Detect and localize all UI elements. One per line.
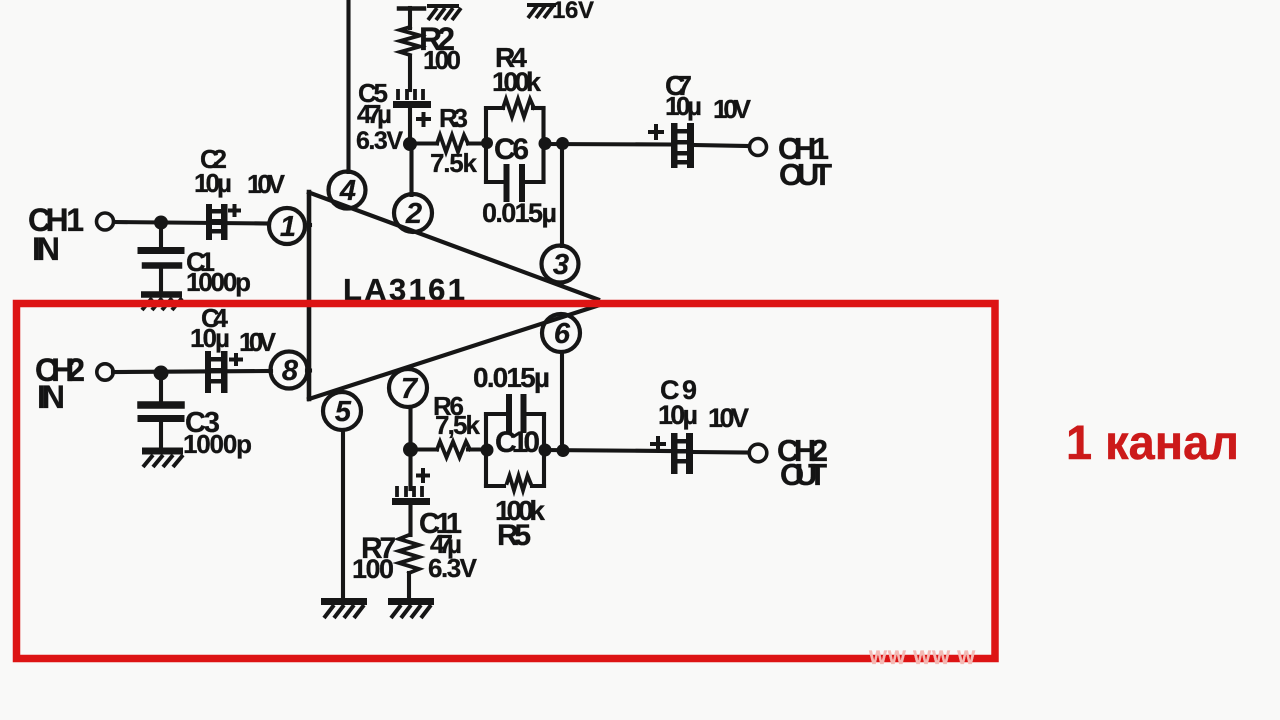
svg-text:10V: 10V [239, 327, 277, 357]
svg-text:1000p: 1000p [186, 267, 251, 297]
svg-text:WW WW W: WW WW W [869, 648, 976, 669]
svg-text:6.3V: 6.3V [428, 553, 478, 583]
svg-text:1: 1 [280, 211, 296, 243]
svg-text:5: 5 [335, 396, 352, 428]
svg-text:C10: C10 [495, 426, 540, 459]
svg-text:10µ: 10µ [665, 91, 702, 121]
svg-text:C6: C6 [494, 133, 529, 166]
svg-text:6: 6 [554, 318, 571, 350]
svg-text:OUT: OUT [780, 457, 827, 492]
svg-text:0.015µ: 0.015µ [482, 198, 557, 228]
svg-text:R3: R3 [439, 103, 468, 133]
svg-text:OUT: OUT [779, 157, 832, 192]
svg-text:10V: 10V [713, 94, 752, 124]
svg-text:1 канал: 1 канал [1066, 417, 1239, 470]
svg-text:7.5k: 7.5k [430, 148, 478, 178]
svg-text:1000p: 1000p [183, 429, 252, 459]
svg-text:47µ: 47µ [357, 99, 392, 129]
svg-text:10µ: 10µ [190, 323, 230, 353]
svg-text:IN: IN [32, 231, 60, 267]
svg-text:10V: 10V [247, 169, 286, 199]
svg-text:2: 2 [405, 198, 422, 230]
svg-text:8: 8 [282, 355, 299, 387]
svg-text:100k: 100k [492, 67, 542, 97]
svg-text:16V: 16V [552, 0, 594, 24]
svg-text:4: 4 [339, 175, 356, 207]
svg-text:10µ: 10µ [658, 400, 698, 430]
svg-text:100: 100 [352, 554, 394, 584]
svg-text:6.3V: 6.3V [356, 127, 403, 155]
svg-text:R5: R5 [497, 519, 531, 552]
svg-text:10µ: 10µ [194, 168, 232, 198]
svg-text:7,5k: 7,5k [435, 410, 481, 440]
svg-text:100: 100 [423, 45, 461, 75]
svg-text:3: 3 [553, 249, 569, 281]
svg-text:0.015µ: 0.015µ [473, 362, 550, 393]
svg-text:IN: IN [37, 379, 65, 415]
svg-text:7: 7 [401, 373, 419, 405]
svg-text:10V: 10V [708, 403, 749, 433]
